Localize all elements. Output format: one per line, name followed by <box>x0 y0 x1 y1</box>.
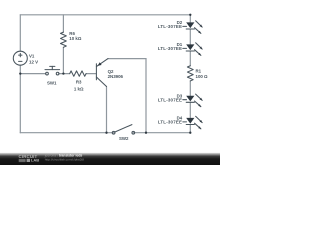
svg-text:R1: R1 <box>196 69 202 74</box>
svg-text:LTL-307EE: LTL-307EE <box>158 120 182 125</box>
svg-text:SW1: SW1 <box>47 80 57 85</box>
svg-text:1 kΩ: 1 kΩ <box>74 86 84 91</box>
svg-text:LTL-307EE: LTL-307EE <box>158 24 182 29</box>
svg-text:10 kΩ: 10 kΩ <box>69 36 82 41</box>
svg-text:R3: R3 <box>76 80 82 85</box>
svg-text:LTL-307EE: LTL-307EE <box>158 46 182 51</box>
svg-text:V1: V1 <box>29 54 35 59</box>
svg-text:LTL-307EE: LTL-307EE <box>158 98 182 103</box>
svg-text:100 Ω: 100 Ω <box>196 74 209 79</box>
svg-text:2N3906: 2N3906 <box>108 74 124 79</box>
svg-text:R6: R6 <box>69 31 75 36</box>
svg-text:12 V: 12 V <box>29 60 38 65</box>
svg-text:LAB: LAB <box>31 158 39 163</box>
svg-text:SW2: SW2 <box>119 136 129 141</box>
svg-text:http://circuitlab.com/c/pka2t8: http://circuitlab.com/c/pka2t8 <box>45 158 84 162</box>
